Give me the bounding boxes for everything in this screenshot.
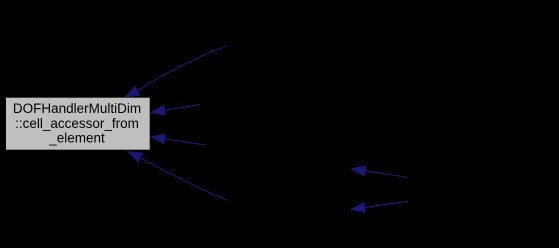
edge arrow from top-right caller to node top [125,46,226,97]
edge arrow from right caller 2 to node right edge (lower) [151,134,205,145]
svg-text:DOFHandlerMultiDim: DOFHandlerMultiDim [13,101,141,116]
edge arrow between right-side hidden nodes (upper) [351,166,407,177]
edge arrow from bottom-right caller to node bottom [128,152,228,201]
edge arrow from right caller 1 to node right edge (upper) [151,105,200,116]
svg-text:::cell_accessor_from: ::cell_accessor_from [15,116,139,131]
svg-text:_element: _element [48,130,105,145]
edge arrow between right-side hidden nodes (lower) [351,201,407,212]
node DOFHandlerMultiDim::cell_accessor_from_element [6,98,150,150]
